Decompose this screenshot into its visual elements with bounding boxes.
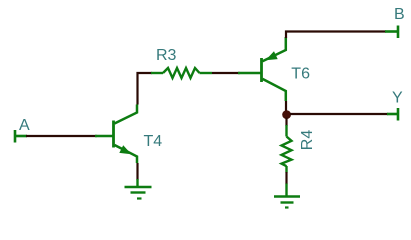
terminal Y — [387, 108, 398, 121]
terminal A — [15, 130, 27, 143]
wire A to T4 base — [26, 135, 97, 137]
wire T4 emitter to ground — [136, 163, 138, 180]
svg-text:R3: R3 — [156, 47, 177, 64]
resistor R4 — [282, 125, 292, 173]
wire junction to Y — [290, 113, 388, 115]
wire T4 collector to R3 — [138, 73, 153, 105]
svg-text:T4: T4 — [144, 133, 163, 150]
transistor T4 — [95, 105, 137, 164]
wire R4 to ground — [285, 172, 287, 184]
terminal B — [385, 26, 398, 39]
svg-text:B: B — [394, 6, 405, 23]
resistor R3 — [151, 68, 212, 78]
wire junction to R4 — [285, 118, 287, 127]
ground under T4 — [125, 179, 152, 199]
transistor T6 — [238, 37, 286, 101]
wire R3 to T6 base — [212, 72, 240, 74]
junction node — [282, 110, 291, 119]
wire T6 collector to junction — [285, 101, 287, 112]
ground under R4 — [274, 184, 300, 208]
svg-text:R4: R4 — [299, 130, 316, 151]
svg-text:A: A — [19, 117, 30, 134]
wire T6 emitter to B — [286, 32, 386, 39]
svg-text:Y: Y — [392, 90, 403, 107]
svg-text:T6: T6 — [291, 66, 310, 83]
